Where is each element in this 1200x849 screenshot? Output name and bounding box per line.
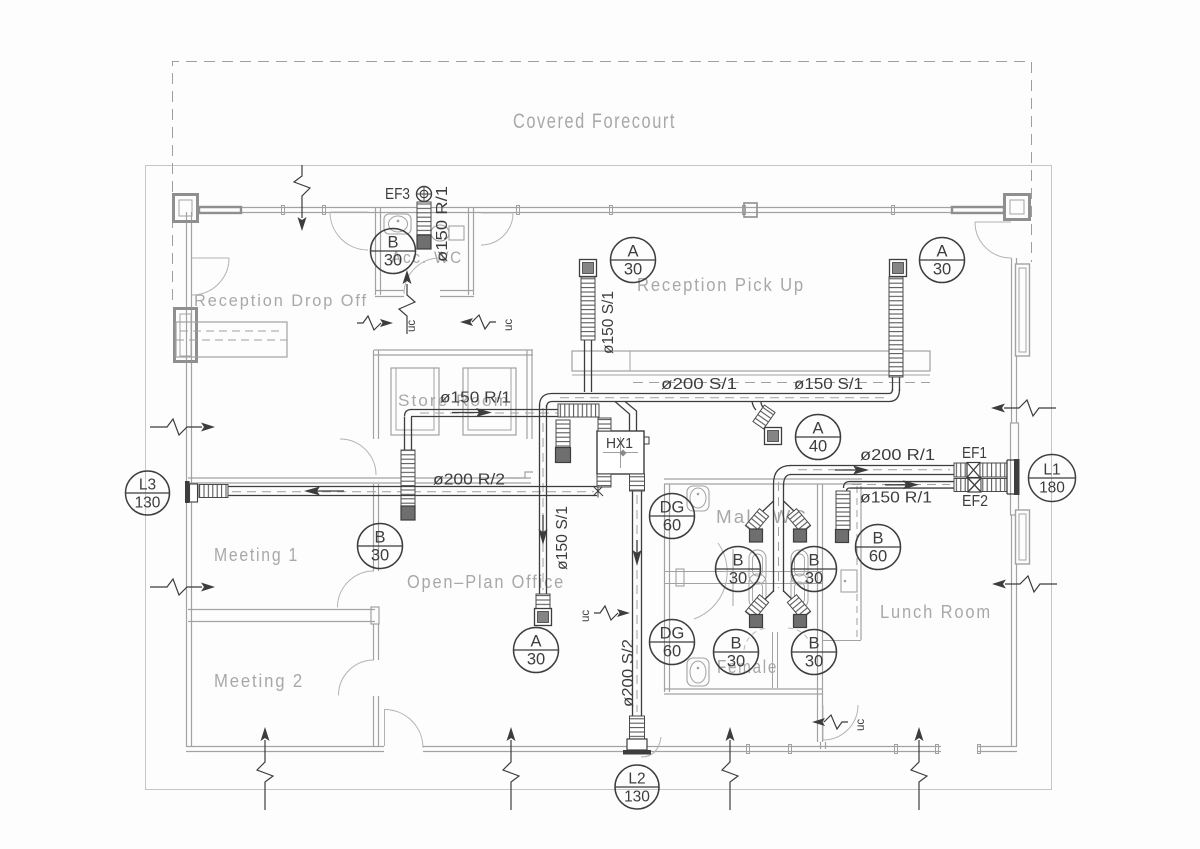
site boundary thin rectangle bbox=[146, 166, 1052, 790]
svg-text:Open–Plan Office: Open–Plan Office bbox=[407, 572, 565, 592]
flex wc branch lower-right bbox=[787, 595, 810, 620]
wall store top bbox=[374, 350, 533, 355]
uc marker left bbox=[357, 316, 381, 330]
tag L3/130 bbox=[126, 471, 170, 515]
right wall window upper bbox=[1016, 264, 1030, 356]
dashed cubicle swings bbox=[744, 628, 768, 650]
right wall window strip mid bbox=[1011, 423, 1019, 515]
wall acc-wc bottom with door gap bbox=[375, 291, 474, 297]
svg-text:30: 30 bbox=[624, 261, 642, 279]
svg-text:B: B bbox=[872, 530, 883, 548]
flex branch A/40 bbox=[753, 405, 775, 429]
tag B/30 wc 3 bbox=[714, 630, 759, 675]
door arc L2 grille bbox=[641, 737, 661, 757]
diffuser supply A/30 reception right bbox=[890, 260, 907, 277]
svg-text:uc: uc bbox=[406, 320, 418, 332]
uc marker lunch door bbox=[824, 715, 848, 729]
grille return near HX1 bbox=[556, 448, 571, 463]
heat exchanger HX1 bbox=[597, 431, 644, 474]
break symbol top wall bbox=[294, 165, 310, 218]
svg-text:60: 60 bbox=[663, 517, 681, 535]
door arc meeting 1 bbox=[338, 571, 375, 608]
tag A/30 reception right bbox=[920, 238, 965, 283]
wall corridor segment 1 bbox=[374, 484, 379, 571]
flow arrow right R/1 bbox=[835, 469, 866, 471]
svg-text:30: 30 bbox=[527, 651, 545, 669]
svg-text:A: A bbox=[812, 420, 823, 438]
diffuser supply A/30 reception left bbox=[580, 260, 597, 277]
svg-text:ø200 S/1: ø200 S/1 bbox=[661, 376, 737, 393]
duct Y-junction to HX1 bbox=[615, 402, 637, 432]
svg-text:30: 30 bbox=[729, 570, 747, 588]
svg-text:EF2: EF2 bbox=[962, 493, 988, 510]
svg-text:ø150 S/1: ø150 S/1 bbox=[554, 506, 571, 570]
svg-text:Reception Pick Up: Reception Pick Up bbox=[637, 275, 805, 295]
wc sink male bbox=[687, 486, 709, 511]
svg-text:30: 30 bbox=[805, 653, 823, 671]
svg-text:Meeting 2: Meeting 2 bbox=[214, 671, 304, 691]
svg-text:ø150 S/1: ø150 S/1 bbox=[600, 291, 617, 354]
wall corridor / meeting top bbox=[188, 478, 531, 483]
wc branch upper bbox=[761, 501, 796, 513]
svg-text:B: B bbox=[808, 635, 819, 653]
flow arrow left bbox=[307, 490, 344, 492]
wall post marker top bbox=[744, 203, 757, 217]
svg-text:ø150 R/1: ø150 R/1 bbox=[860, 490, 932, 507]
flow arrow right R/1 lower bbox=[885, 484, 916, 486]
acc-wc toilet bbox=[431, 225, 449, 241]
tag L2/130 bbox=[615, 765, 659, 809]
svg-text:EF1: EF1 bbox=[962, 445, 987, 462]
flex return into HX1 bbox=[558, 404, 599, 417]
fan EF3 symbol bbox=[417, 187, 432, 202]
reception counter bbox=[572, 351, 930, 371]
wall corridor segment 2 bbox=[374, 624, 379, 660]
door arc right wall top bbox=[975, 221, 1011, 223]
grille extract wc upper left bbox=[750, 529, 763, 542]
break symbol bottom wall 1 bbox=[257, 740, 273, 810]
svg-text:130: 130 bbox=[135, 495, 161, 512]
svg-text:B: B bbox=[732, 552, 743, 570]
svg-text:L2: L2 bbox=[628, 771, 645, 788]
break arrow acc wc bbox=[399, 284, 415, 334]
flex drop to grille near HX1 bbox=[556, 420, 570, 448]
door arc reception drop off left wall bbox=[192, 257, 229, 259]
svg-text:A: A bbox=[530, 633, 541, 651]
svg-text:EF3: EF3 bbox=[385, 186, 410, 203]
inline fan EF2 bbox=[968, 478, 981, 492]
duct return o200 R/2 bbox=[228, 487, 597, 496]
duct centerline dashes bbox=[232, 398, 950, 712]
uc marker right bbox=[472, 315, 496, 329]
wall corridor segment 3 bbox=[374, 696, 379, 746]
wall right door gap bbox=[1008, 222, 1020, 258]
wall acc-wc left bbox=[376, 207, 381, 295]
lunch room cupboard bbox=[841, 570, 857, 592]
wc sink female bbox=[687, 658, 709, 686]
door arc meeting 2 bbox=[339, 660, 375, 696]
wc toilets bbox=[749, 550, 766, 584]
wall lunch shaft bbox=[860, 486, 862, 640]
tag A/30 reception left bbox=[611, 238, 656, 283]
louvre L3 wall cap bbox=[185, 481, 190, 503]
door arc store room bbox=[340, 439, 376, 475]
break symbol bottom wall 4 bbox=[911, 740, 927, 810]
duct elbow supply left drop bbox=[540, 394, 553, 409]
grille extract acc wc bbox=[417, 235, 431, 249]
canopy dashed line above counter bbox=[633, 382, 930, 384]
svg-text:180: 180 bbox=[1039, 480, 1065, 497]
svg-text:ø150 R/1: ø150 R/1 bbox=[440, 390, 511, 407]
duct elbow store return bbox=[405, 410, 412, 417]
tag A/30 open plan bbox=[514, 628, 559, 673]
wall acc-wc right bbox=[469, 207, 474, 295]
tag B/30 store bbox=[358, 524, 403, 569]
door arc wc lobby bbox=[481, 212, 513, 214]
svg-text:ø150 R/1: ø150 R/1 bbox=[434, 186, 451, 262]
svg-text:30: 30 bbox=[805, 570, 823, 588]
svg-text:30: 30 bbox=[727, 653, 745, 671]
wall bottom glazed gap bbox=[941, 743, 978, 755]
duct elbow R/1 lower left bbox=[844, 482, 851, 492]
column top-left bbox=[174, 195, 198, 222]
grille extract wc lower left bbox=[750, 615, 763, 628]
door arc acc-wc bbox=[404, 258, 440, 294]
svg-text:130: 130 bbox=[624, 789, 650, 806]
flex EF3 drop bbox=[417, 202, 431, 236]
wall wc mid divider bbox=[664, 572, 822, 584]
svg-text:30: 30 bbox=[384, 252, 402, 270]
tag B/30 wc 2 bbox=[792, 547, 837, 592]
break symbol bottom wall 2 bbox=[503, 740, 519, 810]
store room bay left bbox=[391, 368, 439, 435]
svg-text:30: 30 bbox=[933, 261, 951, 279]
duct elbow supply right riser bbox=[889, 389, 900, 402]
left wall window bay bbox=[175, 309, 197, 362]
junction star at HX1 return bbox=[593, 485, 603, 498]
acc-wc sink bbox=[384, 214, 411, 234]
column top-right bbox=[1005, 195, 1030, 220]
flex to diffuser A30 open plan bbox=[536, 594, 550, 609]
duct elbow R/1 top bbox=[774, 466, 792, 487]
wall panel joint ticks bbox=[282, 206, 285, 215]
wall thick stub top-left bbox=[199, 207, 241, 213]
duct extract o200 R/1 bbox=[790, 466, 954, 475]
tag DG/60 lower bbox=[650, 620, 695, 665]
wall wc left bbox=[665, 484, 670, 692]
wall thick stub top-right bbox=[952, 207, 1004, 213]
svg-text:60: 60 bbox=[869, 548, 887, 566]
svg-text:ø150 S/1: ø150 S/1 bbox=[794, 376, 863, 393]
duct wc extract riser bbox=[774, 484, 784, 592]
inline fan EF1 bbox=[967, 463, 980, 478]
flex drop to grille lunch side bbox=[836, 491, 850, 530]
tag B/30 wc 1 bbox=[716, 547, 761, 592]
flex HX1 bottom-right port bbox=[630, 474, 645, 491]
reception desk bbox=[176, 322, 287, 357]
grille extract near lunch bbox=[836, 530, 849, 543]
wall store left bbox=[374, 350, 379, 439]
svg-text:uc: uc bbox=[855, 719, 867, 731]
tag L1/180 bbox=[1029, 455, 1076, 502]
diffuser supply A/40 bbox=[765, 428, 782, 445]
grille return store bbox=[401, 506, 415, 520]
svg-text:40: 40 bbox=[809, 438, 827, 456]
flex store return grille bbox=[401, 450, 415, 506]
wall right perimeter bbox=[1012, 257, 1017, 746]
duct supply o200 S/2 bbox=[633, 474, 642, 716]
svg-text:uc: uc bbox=[503, 319, 515, 331]
flow arrow down S/2 bbox=[636, 540, 638, 563]
tag B/30 wc 4 bbox=[792, 630, 837, 675]
louvre L2 wall grille bbox=[627, 739, 647, 750]
svg-text:B: B bbox=[730, 635, 741, 653]
wc branch lower bbox=[761, 591, 796, 603]
svg-text:Reception Drop Off: Reception Drop Off bbox=[194, 291, 368, 310]
svg-text:30: 30 bbox=[371, 547, 389, 565]
tag A/40 bbox=[796, 415, 841, 460]
flow arrow down bbox=[542, 515, 544, 542]
svg-text:L3: L3 bbox=[139, 477, 156, 494]
duct return o150 R/1 store run bbox=[411, 410, 558, 417]
flex before EF2 bbox=[954, 479, 968, 492]
flex HX1 top port bbox=[598, 418, 611, 431]
uc marker open plan bbox=[594, 606, 618, 620]
flow arrow right bbox=[452, 412, 489, 414]
wc partition between toilet pairs bbox=[773, 632, 778, 688]
wall bottom door gap bbox=[384, 743, 423, 755]
flex after EF2 bbox=[981, 479, 1007, 492]
svg-text:Meeting 1: Meeting 1 bbox=[214, 545, 299, 565]
flex wc branch upper-right bbox=[787, 509, 810, 534]
flex wc branch lower-left bbox=[745, 595, 768, 620]
svg-text:B: B bbox=[387, 234, 398, 252]
flex at L3 louvre bbox=[199, 485, 228, 498]
wall wc right bbox=[818, 484, 823, 742]
duct riser o150 S/1 reception left bbox=[585, 340, 592, 392]
flex S/2 to louvre bbox=[630, 716, 645, 739]
svg-text:ø200 R/2: ø200 R/2 bbox=[433, 472, 505, 489]
store room bay right bbox=[463, 368, 516, 435]
duct supply main o200-o150 S/1 bbox=[552, 394, 889, 402]
wall step near store right bbox=[508, 472, 533, 478]
door arc top wall entry bbox=[330, 211, 368, 213]
break symbol left wall upper bbox=[150, 419, 202, 435]
svg-text:DG: DG bbox=[660, 499, 685, 517]
grille extract wc upper right bbox=[794, 529, 807, 542]
door arc male wc bbox=[694, 543, 727, 619]
flex before EF1 bbox=[954, 463, 967, 477]
wall wc top bbox=[664, 479, 862, 484]
wall bottom perimeter bbox=[186, 747, 1017, 752]
wc cubicle partition bbox=[732, 549, 734, 606]
break symbol bottom wall 3 bbox=[722, 740, 738, 810]
flex riser left bbox=[581, 277, 595, 340]
covered forecourt dashed outline bbox=[173, 62, 1032, 301]
tag DG/60 upper bbox=[650, 494, 695, 539]
svg-text:Lunch Room: Lunch Room bbox=[880, 602, 992, 622]
flex riser right bbox=[889, 277, 903, 377]
svg-text:B: B bbox=[808, 552, 819, 570]
wall meeting divider bbox=[188, 610, 375, 622]
door arc lunch room bbox=[822, 705, 824, 740]
svg-text:B: B bbox=[374, 529, 385, 547]
flex after EF1 bbox=[980, 463, 1007, 477]
wall wc right lower to perimeter bbox=[821, 742, 826, 749]
wall store right bbox=[527, 350, 532, 439]
right wall window lower bbox=[1016, 510, 1030, 564]
duct drop store return bbox=[405, 417, 412, 450]
svg-text:ø200 S/2: ø200 S/2 bbox=[620, 639, 637, 707]
break symbol right wall lower bbox=[1005, 576, 1057, 592]
duct drop o150 S/1 to open plan bbox=[540, 405, 547, 594]
svg-text:ø200 R/1: ø200 R/1 bbox=[860, 447, 935, 464]
tag B/30 acc wc bbox=[371, 229, 416, 274]
break symbol right wall upper bbox=[1004, 400, 1056, 416]
louvre L1 wall cap bbox=[1007, 460, 1014, 494]
branch drop to diffuser A/40 bbox=[752, 402, 763, 411]
break symbol left wall lower bbox=[150, 579, 202, 595]
svg-text:DG: DG bbox=[660, 625, 685, 643]
door arc open-plan south bbox=[384, 709, 386, 746]
svg-text:uc: uc bbox=[580, 610, 592, 622]
svg-text:HX1: HX1 bbox=[606, 436, 633, 452]
wall top perimeter bbox=[199, 208, 1004, 213]
wall wc bottom bbox=[664, 689, 822, 694]
svg-text:A: A bbox=[627, 243, 638, 261]
wall left perimeter bbox=[187, 212, 192, 746]
svg-text:A: A bbox=[936, 243, 947, 261]
duct riser o150 right bbox=[893, 377, 900, 391]
grille extract wc lower right bbox=[794, 615, 807, 628]
flex HX1 bottom-left port bbox=[597, 474, 611, 487]
svg-text:Covered Forecourt: Covered Forecourt bbox=[513, 110, 676, 133]
flex wc branch upper-left bbox=[745, 509, 768, 534]
diffuser supply A/30 open plan bbox=[535, 609, 552, 626]
duct extract o150 R/1 lower bbox=[850, 482, 954, 489]
tag B/60 bbox=[856, 525, 901, 570]
svg-text:60: 60 bbox=[663, 643, 681, 661]
svg-text:L1: L1 bbox=[1043, 462, 1060, 479]
